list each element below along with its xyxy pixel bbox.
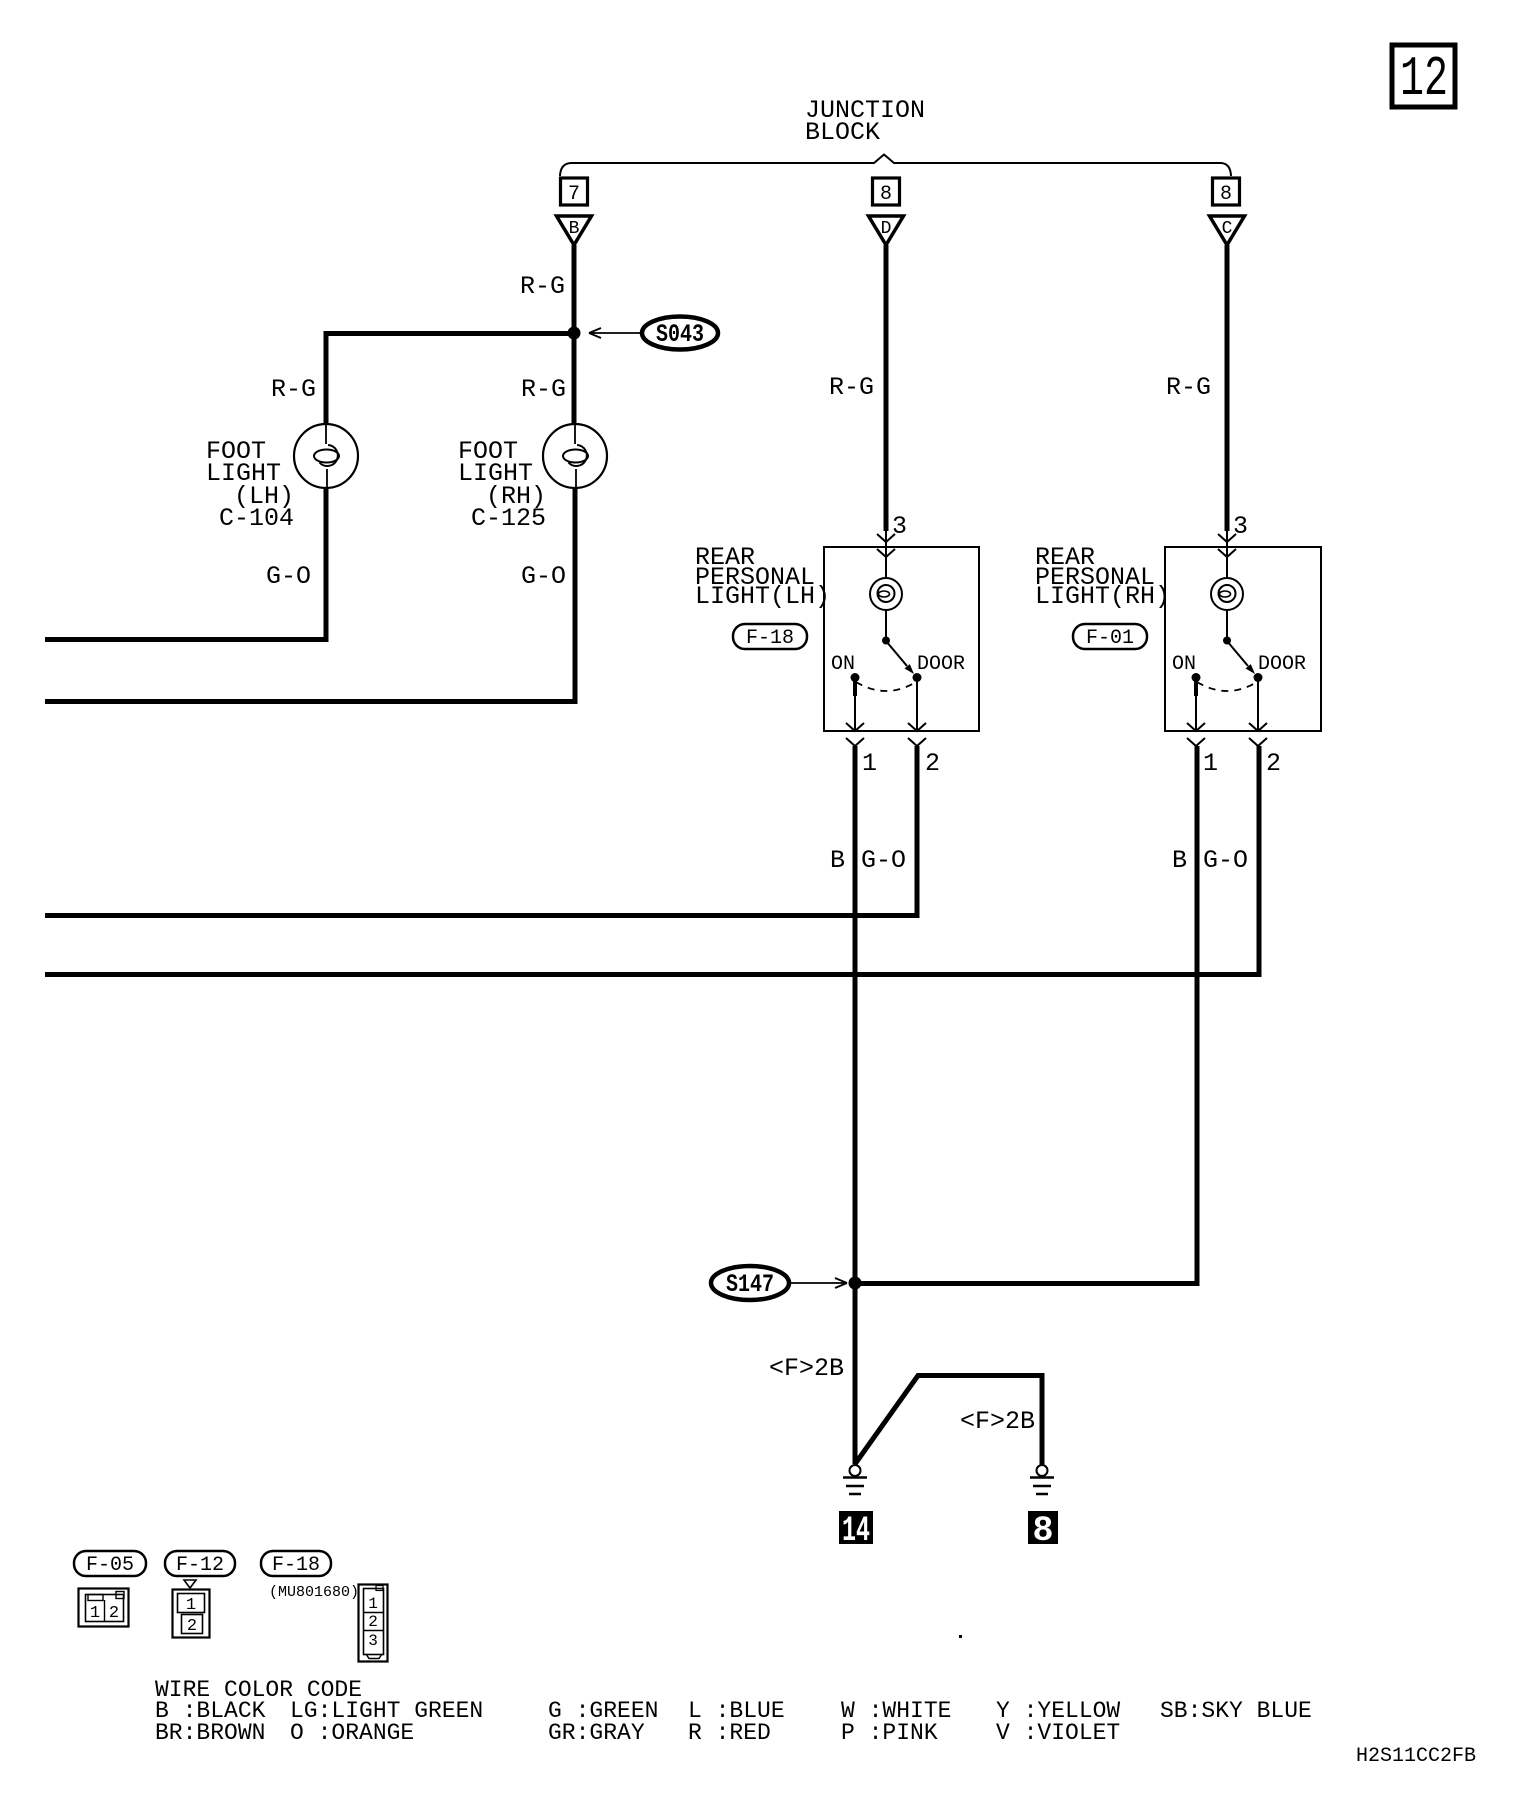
junction dot S043 <box>568 327 581 340</box>
rear personal light RH box <box>1165 547 1321 731</box>
svg-text:P :PINK: P :PINK <box>841 1720 938 1746</box>
svg-text:8: 8 <box>1032 1511 1053 1551</box>
switch arc LH <box>856 682 916 691</box>
junction block label <box>805 96 925 147</box>
svg-text:F-12: F-12 <box>176 1554 224 1577</box>
rear LH bulb <box>870 578 902 610</box>
svg-text:R-G: R-G <box>829 373 874 402</box>
svg-text:2: 2 <box>109 1604 119 1623</box>
pin chevrons RH <box>1187 723 1205 746</box>
ground symbol 14 <box>839 1465 873 1551</box>
connector pill F-12 <box>165 1551 235 1577</box>
svg-text:F-18: F-18 <box>746 627 794 650</box>
label REAR PERSONAL LIGHT(RH) <box>1035 543 1170 611</box>
svg-text:DOOR: DOOR <box>917 653 965 676</box>
svg-text:2: 2 <box>368 1613 378 1631</box>
connector pill F-18 <box>733 624 807 650</box>
switch common RH <box>1223 637 1231 645</box>
svg-text:3: 3 <box>892 512 907 541</box>
DOOR contact RH <box>1254 673 1263 682</box>
svg-text:S043: S043 <box>656 320 704 349</box>
connector F-18 drawing <box>359 1585 388 1662</box>
svg-text:LIGHT(RH): LIGHT(RH) <box>1035 582 1170 611</box>
svg-text:F-05: F-05 <box>86 1554 134 1577</box>
wire G-O LH rear light pin2 <box>45 746 917 916</box>
svg-text:C-104: C-104 <box>219 504 294 533</box>
switch arc RH <box>1197 682 1257 691</box>
pin 3 chevrons LH <box>877 534 895 557</box>
stray mark <box>959 1635 962 1638</box>
svg-text:S147: S147 <box>726 1270 774 1299</box>
svg-text:ON: ON <box>831 653 855 676</box>
svg-text:F-18: F-18 <box>272 1554 320 1577</box>
connector pill F-01 <box>1073 624 1147 650</box>
svg-text:C-125: C-125 <box>471 504 546 533</box>
terminal 8 box C <box>1213 178 1240 206</box>
arrow to S043 junction <box>589 328 642 338</box>
svg-text:G-O: G-O <box>861 846 906 875</box>
svg-text:7: 7 <box>568 183 580 206</box>
wire G-O RH rear light pin2 <box>45 746 1259 975</box>
connector D triangle <box>869 216 904 245</box>
svg-text:1: 1 <box>368 1595 378 1613</box>
svg-text:LIGHT(LH): LIGHT(LH) <box>695 582 830 611</box>
svg-text:R :RED: R :RED <box>688 1720 771 1746</box>
ground symbol 8 <box>1028 1465 1058 1551</box>
label FOOT LIGHT (RH) C-125 <box>458 437 546 533</box>
switch common LH <box>882 637 890 645</box>
ON contact RH <box>1192 673 1201 682</box>
page number box 12 <box>1392 45 1455 111</box>
svg-text:SB:SKY BLUE: SB:SKY BLUE <box>1160 1698 1312 1724</box>
connector pill F-05 <box>74 1551 146 1577</box>
wire B RH rear light pin1 <box>855 746 1197 1284</box>
arrow to S147 junction <box>789 1278 847 1288</box>
rear RH bulb <box>1211 578 1243 610</box>
svg-text:8: 8 <box>880 183 892 206</box>
svg-text:1: 1 <box>1203 749 1218 778</box>
junction dot S147 <box>849 1277 862 1290</box>
svg-text:C: C <box>1222 219 1233 239</box>
svg-text:1: 1 <box>862 749 877 778</box>
label REAR PERSONAL LIGHT(LH) <box>695 543 830 611</box>
rear personal light LH box <box>824 547 979 731</box>
wire color code legend <box>155 1677 1312 1746</box>
svg-text:R-G: R-G <box>271 375 316 404</box>
svg-text:R-G: R-G <box>521 375 566 404</box>
svg-text:BR:BROWN: BR:BROWN <box>155 1720 265 1746</box>
svg-text:3: 3 <box>368 1632 378 1650</box>
terminal 8 box D <box>873 178 900 206</box>
wire R-G from terminal D <box>884 245 889 531</box>
svg-text:14: 14 <box>842 1511 870 1551</box>
svg-text:B: B <box>569 219 580 239</box>
contact lines LH <box>853 678 857 696</box>
svg-text:1: 1 <box>90 1604 100 1623</box>
contact lines RH <box>1194 678 1198 696</box>
lamp feed line LH <box>885 531 887 637</box>
wire R-G from terminal B <box>572 245 577 424</box>
splice S147 <box>711 1266 789 1300</box>
connector F-12 drawing <box>173 1580 210 1638</box>
svg-text:1: 1 <box>186 1596 196 1615</box>
svg-text:BLOCK: BLOCK <box>805 118 880 147</box>
svg-text:O :ORANGE: O :ORANGE <box>290 1720 414 1746</box>
terminal 7 box <box>561 178 588 206</box>
svg-text:<F>2B: <F>2B <box>960 1407 1035 1436</box>
foot light RH bulb <box>543 424 607 488</box>
svg-text:(MU801680): (MU801680) <box>269 1584 359 1601</box>
pin chevrons LH <box>846 723 864 746</box>
ground branch wire <box>855 1376 1042 1466</box>
svg-text:H2S11CC2FB: H2S11CC2FB <box>1356 1745 1476 1768</box>
splice S043 <box>642 317 718 350</box>
svg-text:12: 12 <box>1400 47 1448 111</box>
svg-text:DOOR: DOOR <box>1258 653 1306 676</box>
svg-text:2: 2 <box>187 1617 197 1636</box>
svg-text:G-O: G-O <box>1203 846 1248 875</box>
svg-text:F-01: F-01 <box>1086 627 1134 650</box>
svg-text:G-O: G-O <box>521 562 566 591</box>
wire branch to LH foot light <box>326 334 574 425</box>
switch blade LH <box>886 641 907 666</box>
svg-text:<F>2B: <F>2B <box>769 1354 844 1383</box>
connector B triangle <box>557 216 592 245</box>
svg-text:D: D <box>881 219 892 239</box>
foot light LH bulb <box>294 424 358 488</box>
connector F-05 drawing <box>79 1589 129 1627</box>
svg-text:R-G: R-G <box>1166 373 1211 402</box>
wire G-O RH foot light <box>45 488 575 702</box>
svg-text:3: 3 <box>1233 512 1248 541</box>
svg-text:8: 8 <box>1220 183 1232 206</box>
svg-text:G-O: G-O <box>266 562 311 591</box>
svg-text:B: B <box>830 846 845 875</box>
pin 3 chevrons RH <box>1218 534 1236 557</box>
switch blade RH <box>1227 641 1248 666</box>
ON contact LH <box>851 673 860 682</box>
svg-text:R-G: R-G <box>520 272 565 301</box>
connector pill F-18 legend <box>261 1551 331 1577</box>
wire R-G from terminal C <box>1225 245 1230 531</box>
svg-text:V :VIOLET: V :VIOLET <box>996 1720 1120 1746</box>
svg-text:B: B <box>1172 846 1187 875</box>
junction block brace <box>560 155 1231 177</box>
wire B LH rear light pin1 <box>853 746 858 1464</box>
connector C triangle <box>1210 216 1245 245</box>
DOOR contact LH <box>913 673 922 682</box>
wire G-O LH foot light <box>45 488 326 640</box>
svg-text:ON: ON <box>1172 653 1196 676</box>
svg-text:2: 2 <box>1266 749 1281 778</box>
svg-text:2: 2 <box>925 749 940 778</box>
lamp feed line RH <box>1226 531 1228 637</box>
label FOOT LIGHT (LH) C-104 <box>206 437 294 533</box>
svg-text:GR:GRAY: GR:GRAY <box>548 1720 645 1746</box>
